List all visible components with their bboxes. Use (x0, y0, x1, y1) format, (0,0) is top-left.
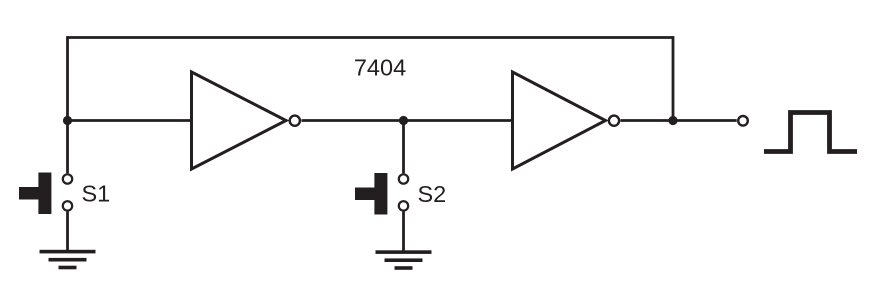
waveform: output pulse symbol (764, 113, 857, 152)
switch S2 lower contact (399, 201, 408, 210)
switch S2 upper contact (399, 174, 408, 183)
wire: feedback top horizontal (68, 36, 674, 39)
inverter U1A (7404) triangle (192, 72, 287, 169)
wire: switch S2 to ground (402, 212, 405, 252)
ground GND1 bar 1 (40, 250, 96, 254)
svg-text:S2: S2 (418, 181, 447, 207)
wire: feedback left vertical (66, 36, 69, 120)
switch S1 upper contact (63, 174, 72, 183)
ground GND1 bar 3 (59, 266, 77, 270)
ground GND2 bar 2 (385, 258, 423, 262)
ground GND2 bar 3 (395, 266, 413, 270)
wire: U1B output to output terminal (621, 119, 737, 122)
switch S1 lower contact (63, 201, 72, 210)
switch S2 pushbutton plunger cap (374, 173, 387, 215)
svg-text:7404: 7404 (354, 55, 406, 81)
switch S2 pushbutton plunger stem (355, 188, 375, 201)
inverter U1B output bubble (609, 116, 619, 126)
wire: switch S1 to ground (66, 212, 69, 252)
ground GND1 bar 2 (49, 258, 87, 262)
terminal: output open circle (738, 116, 748, 126)
wire: node J1 to inverter U1A input (68, 119, 192, 122)
switch S1 pushbutton plunger cap (38, 173, 51, 215)
inverter U1A output bubble (290, 116, 300, 126)
switch S1 pushbutton plunger stem (19, 187, 39, 200)
node: junction J3 (668, 116, 677, 125)
node: junction J1 (63, 116, 72, 125)
wire: J1 down to switch S1 (66, 121, 69, 174)
svg-text:S1: S1 (82, 181, 111, 207)
inverter U1B (7404) triangle (513, 72, 606, 169)
ground GND2 bar 1 (376, 250, 432, 254)
node: junction J2 (399, 116, 408, 125)
wire: J2 down to switch S2 (402, 121, 405, 174)
wire: feedback right vertical (672, 36, 675, 120)
wire: U1A output to U1B input (302, 119, 514, 122)
